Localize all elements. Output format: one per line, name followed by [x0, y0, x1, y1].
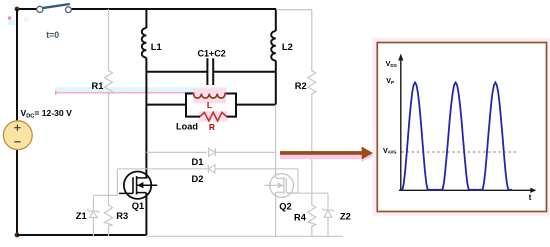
wire left drain rail — [145, 9, 147, 28]
svg-text:t: t — [529, 193, 532, 202]
svg-text:L1: L1 — [151, 42, 162, 52]
arrow highlight pink — [280, 147, 375, 162]
graph dashed Vavg line — [402, 151, 517, 153]
graph box — [375, 40, 549, 214]
svg-text:C1+C2: C1+C2 — [198, 48, 226, 58]
wire bottom rail gray — [146, 235, 343, 237]
wire left gate node — [93, 194, 117, 196]
load R highlight pink — [199, 111, 228, 122]
wire Q2 drain — [275, 105, 277, 178]
guide artifact pink dot — [8, 17, 11, 20]
wire Q1 source — [145, 193, 147, 235]
wire load left — [146, 104, 186, 106]
load box — [186, 94, 236, 117]
zener Z2 — [322, 193, 334, 236]
guide highlight pink line — [55, 92, 225, 94]
svg-text:t=0: t=0 — [46, 30, 59, 40]
wire bottom rail black — [17, 234, 146, 236]
svg-text:R: R — [209, 122, 215, 132]
wire right gate node — [287, 192, 328, 194]
wire R2 top link — [276, 9, 312, 11]
guide highlight cyan band — [55, 87, 227, 92]
wire load right — [236, 104, 276, 106]
inductor L2 — [271, 31, 276, 61]
svg-text:Load: Load — [176, 121, 198, 131]
load L highlight pink — [193, 88, 226, 103]
wire right gate drop — [297, 169, 299, 193]
svg-text:D1: D1 — [192, 157, 204, 167]
graph waveform — [401, 83, 512, 190]
wire top rail — [17, 8, 37, 10]
wire right rail lower — [275, 61, 277, 105]
svg-text:Q1: Q1 — [132, 201, 144, 211]
mosfet Q2 — [264, 174, 298, 198]
arrow to graph — [280, 147, 373, 160]
svg-text:R1: R1 — [92, 81, 104, 91]
wire left rail — [16, 9, 18, 235]
graph x-axis — [399, 189, 532, 191]
resistor R load — [200, 112, 227, 121]
junction dot top-left — [15, 7, 20, 12]
guide artifact blue top-left — [8, 20, 16, 25]
svg-text:R2: R2 — [295, 81, 307, 91]
inductor L load — [194, 94, 226, 99]
wire D2 net — [117, 168, 298, 170]
switch SW1 t=0 — [37, 4, 72, 13]
wire Q2 source — [275, 192, 277, 236]
mosfet Q1 — [119, 172, 157, 199]
zener Z1 — [88, 195, 100, 236]
graph y-axis — [400, 58, 402, 191]
wire right rail upper — [275, 9, 277, 31]
resistor R3 — [105, 195, 113, 236]
wire gate drop left — [116, 169, 118, 196]
junction dot bottom-left — [15, 233, 20, 238]
svg-text:L2: L2 — [282, 42, 293, 52]
capacitor C1+C2 — [146, 58, 275, 85]
diode D2 — [208, 165, 215, 173]
source V1 VDC — [3, 121, 32, 150]
svg-text:L: L — [207, 100, 212, 110]
svg-text:D2: D2 — [192, 174, 204, 184]
wire D1 net — [146, 151, 275, 153]
wire left drain rail lower — [145, 58, 147, 179]
resistor R1 — [105, 9, 113, 195]
svg-text:R3: R3 — [116, 211, 128, 221]
load coil endpoint dots — [193, 93, 195, 95]
svg-text:Z2: Z2 — [340, 211, 351, 221]
svg-text:Q2: Q2 — [279, 202, 291, 212]
resistor R4 — [308, 193, 316, 236]
resistor R2 — [308, 10, 316, 194]
inductor L1 — [142, 28, 147, 58]
diode D1 — [209, 148, 216, 156]
svg-text:R4: R4 — [294, 213, 307, 223]
svg-text:Z1: Z1 — [76, 211, 87, 221]
svg-text:VDC= 12-30 V: VDC= 12-30 V — [21, 108, 73, 120]
